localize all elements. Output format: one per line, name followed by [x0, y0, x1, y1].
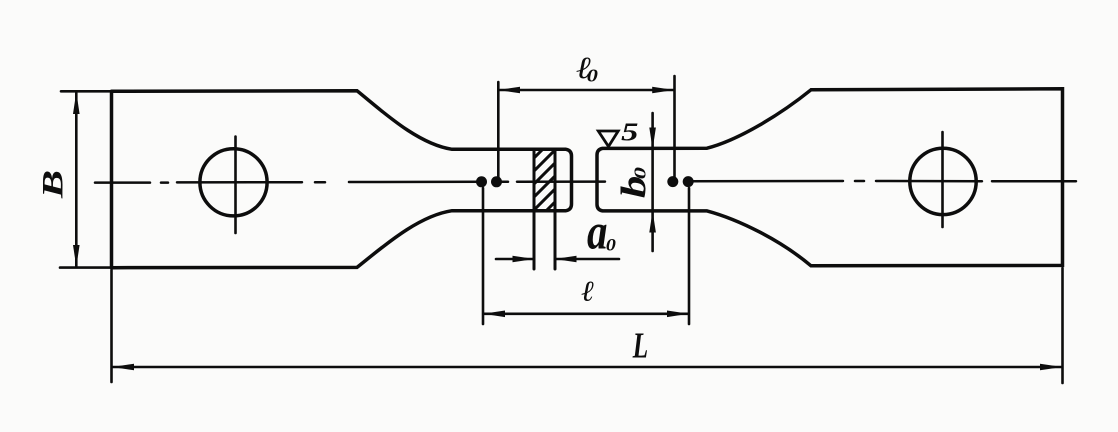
dimension l0: arrowheads — [498, 87, 674, 94]
dimension B: dimension line — [75, 93, 78, 266]
label a0 — [588, 225, 607, 249]
dimension l0: extension lines — [498, 76, 674, 179]
specimen outline left half — [112, 91, 572, 268]
horizontal centerline (dash-dot axis) — [95, 181, 1076, 183]
hole right — [910, 148, 976, 214]
cross-section hatching — [526, 128, 564, 257]
hole left vertical center mark — [234, 137, 237, 234]
label 5 (surface class) — [622, 123, 638, 140]
dimension B: arrowheads — [73, 92, 80, 267]
label l — [582, 281, 594, 301]
dimension L: arrowheads — [112, 364, 1063, 371]
label l0 — [577, 58, 591, 79]
label b0 (rotated) — [621, 177, 646, 198]
dimension L: extension lines — [112, 268, 1063, 383]
dimension B: extension lines — [60, 91, 115, 267]
hole right vertical center mark — [941, 132, 944, 227]
specimen outline right half — [597, 89, 1063, 266]
dimension l: dimension line — [484, 312, 688, 315]
surface finish triangle symbol — [598, 131, 618, 147]
label B (rotated) — [43, 172, 63, 199]
label L — [633, 334, 648, 358]
dimension b0: arrowheads — [649, 128, 656, 233]
dimension b0: dimension line through section — [651, 113, 654, 251]
dimension L: dimension line — [113, 366, 1061, 369]
gauge mark dots on axis — [476, 176, 694, 187]
revolved cross-section strip edges — [534, 150, 555, 270]
dimension a0: dimension lines with outside arrows — [496, 258, 619, 261]
dimension l: extension lines — [483, 188, 689, 324]
dimension l: arrowheads — [483, 311, 689, 318]
dimension l0: dimension line — [500, 89, 674, 92]
hole left — [200, 149, 267, 216]
